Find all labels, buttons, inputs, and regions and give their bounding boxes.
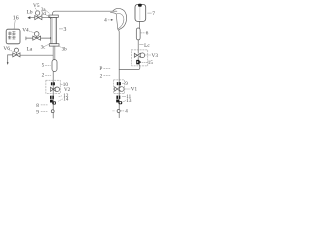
dashed box right group (114, 80, 125, 94)
leader from 16 to box (14, 20, 15, 29)
block 12 (50, 96, 54, 99)
joint circle (left) (51, 110, 54, 113)
column 3 body (51, 17, 57, 43)
column top elbow (53, 11, 56, 15)
svg-text:V1: V1 (131, 87, 138, 93)
svg-text:6: 6 (146, 31, 149, 37)
label 7 (148, 12, 152, 14)
label 14 (58, 99, 62, 101)
svg-text:V5: V5 (33, 3, 40, 9)
valve V1 (115, 87, 118, 91)
capsule 6 (136, 28, 140, 40)
valve V5 (35, 11, 39, 15)
svg-text:V4: V4 (22, 27, 29, 33)
component 15 (137, 57, 139, 60)
svg-text:8: 8 (36, 103, 39, 109)
svg-text:P: P (99, 66, 102, 72)
label 13 (123, 101, 126, 102)
line 6 down (137, 40, 139, 53)
svg-text:Lb: Lb (27, 9, 33, 15)
label 9 (right) (122, 82, 125, 84)
svg-text:2: 2 (42, 72, 45, 78)
svg-text:3b: 3b (62, 47, 68, 52)
svg-text:13: 13 (126, 98, 132, 104)
flow block 10 (51, 82, 53, 85)
top pipe (55, 10, 117, 12)
column 3 top flange (49, 15, 58, 17)
flow block 9 (117, 82, 119, 85)
block 14 (50, 100, 53, 103)
label V3 (145, 54, 151, 56)
controller box 16 (6, 29, 20, 44)
leader dashes left of joint (113, 110, 115, 112)
valve V3 (134, 53, 137, 57)
loop 4 (pipe bend) (111, 13, 118, 30)
dashed box V3 group (131, 50, 147, 66)
svg-text:V2: V2 (64, 87, 71, 93)
label 15 (142, 61, 147, 63)
svg-text:3c: 3c (41, 46, 47, 51)
label V1 (125, 88, 130, 90)
line 7 to 6 (139, 21, 141, 28)
pipe V5 to column (42, 17, 51, 19)
svg-text:Lc: Lc (144, 43, 150, 49)
label 12 (59, 96, 63, 97)
dashed box left group (46, 80, 60, 93)
svg-text:14: 14 (63, 96, 69, 102)
label 3b (59, 46, 61, 47)
pipe V4 to column (41, 37, 51, 39)
elbow from V3 group to main line (119, 64, 140, 69)
joint circle (right) (117, 110, 120, 113)
svg-text:9: 9 (36, 109, 39, 115)
column 3 bottom flange (49, 44, 59, 46)
V6 left port elbow down with arrow (8, 54, 13, 56)
leader V5 (35, 8, 37, 10)
svg-text:7: 7 (152, 11, 155, 17)
svg-text:9: 9 (125, 81, 128, 87)
svg-text:5: 5 (42, 63, 45, 69)
column downtube (double wall) (52, 46, 54, 60)
label 4 (bottom) (121, 110, 125, 112)
nozzle tab 13 (119, 101, 123, 104)
svg-text:16: 16 (13, 15, 19, 21)
main right line (118, 30, 121, 118)
svg-text:4: 4 (104, 18, 107, 24)
V4 left port with end tick (26, 37, 33, 39)
svg-text:3: 3 (64, 27, 67, 33)
svg-text:La: La (27, 46, 33, 52)
leader V6 (9, 50, 14, 52)
leader V4 (27, 30, 34, 32)
nozzle tab 8 (52, 101, 56, 104)
capsule 7 (135, 4, 146, 21)
valve V4 (34, 32, 39, 37)
label 3 (59, 28, 63, 30)
inlet arrow at V5 (27, 16, 30, 19)
valve V2 (51, 87, 54, 91)
label Lc (139, 44, 143, 46)
block 13 (116, 100, 119, 103)
svg-text:2: 2 (100, 73, 103, 79)
block 11 (116, 96, 120, 99)
svg-text:4: 4 (125, 109, 128, 115)
svg-text:V3: V3 (152, 53, 159, 59)
valve V6 (14, 48, 18, 52)
pipe V6 to downtube (20, 54, 53, 56)
svg-text:15: 15 (148, 60, 154, 66)
label 11 (122, 95, 126, 97)
label 10 (60, 83, 62, 85)
svg-text:V6: V6 (3, 46, 10, 52)
left chain line (52, 72, 54, 119)
capsule 5 (52, 60, 57, 72)
label 6 (141, 32, 145, 34)
